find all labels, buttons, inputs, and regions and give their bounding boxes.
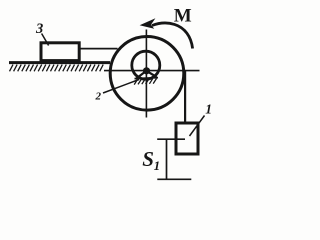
rope from block 3 to pulley	[79, 48, 118, 50]
svg-text:M: M	[174, 6, 192, 27]
leader line for label 3	[42, 34, 49, 46]
ground surface under block 3	[9, 61, 110, 64]
rope from pulley rim to block 1	[184, 70, 186, 124]
svg-text:S: S	[142, 147, 154, 171]
drum 2 (inner pulley)	[132, 51, 160, 79]
leader line for label 1	[190, 116, 205, 137]
leader line for label 2	[103, 80, 139, 94]
moment M arc arrow	[152, 23, 193, 49]
displacement S1 bottom tick	[157, 178, 191, 180]
block 3 (sliding body)	[41, 43, 79, 61]
svg-text:2: 2	[95, 91, 102, 103]
ground hatching	[10, 65, 104, 72]
vertical centerline of pulley	[145, 30, 147, 118]
axle hub	[143, 67, 150, 74]
pin support hatching	[134, 79, 156, 85]
horizontal centerline of pulley	[104, 70, 200, 72]
displacement S1 top tick	[157, 138, 185, 140]
axle pin support spokes	[136, 71, 157, 79]
block 1 (hanging body)	[176, 123, 198, 154]
displacement S1 line	[166, 139, 168, 179]
pulley outer rim	[110, 37, 184, 111]
moment arrowhead	[140, 18, 156, 29]
svg-text:1: 1	[154, 158, 161, 173]
svg-text:1: 1	[205, 102, 212, 117]
pin support base bar	[135, 78, 159, 79]
